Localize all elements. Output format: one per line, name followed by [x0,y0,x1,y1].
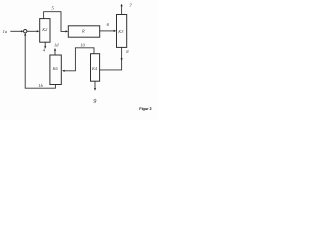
svg-text:4: 4 [43,48,46,53]
svg-text:1d: 1d [54,43,59,48]
svg-text:R: R [81,29,85,34]
svg-text:9: 9 [93,98,96,105]
svg-text:5: 5 [52,6,55,11]
svg-text:K2: K2 [41,27,48,32]
svg-text:7: 7 [129,3,132,9]
svg-text:K4: K4 [91,66,98,71]
svg-text:1b: 1b [38,83,43,88]
svg-text:8: 8 [126,49,129,54]
svg-text:Figur 2: Figur 2 [139,106,152,111]
svg-text:10: 10 [80,42,85,47]
svg-text:6: 6 [107,22,110,27]
svg-text:1a: 1a [3,29,8,34]
svg-text:K3: K3 [117,29,124,34]
svg-text:K6: K6 [52,66,59,71]
